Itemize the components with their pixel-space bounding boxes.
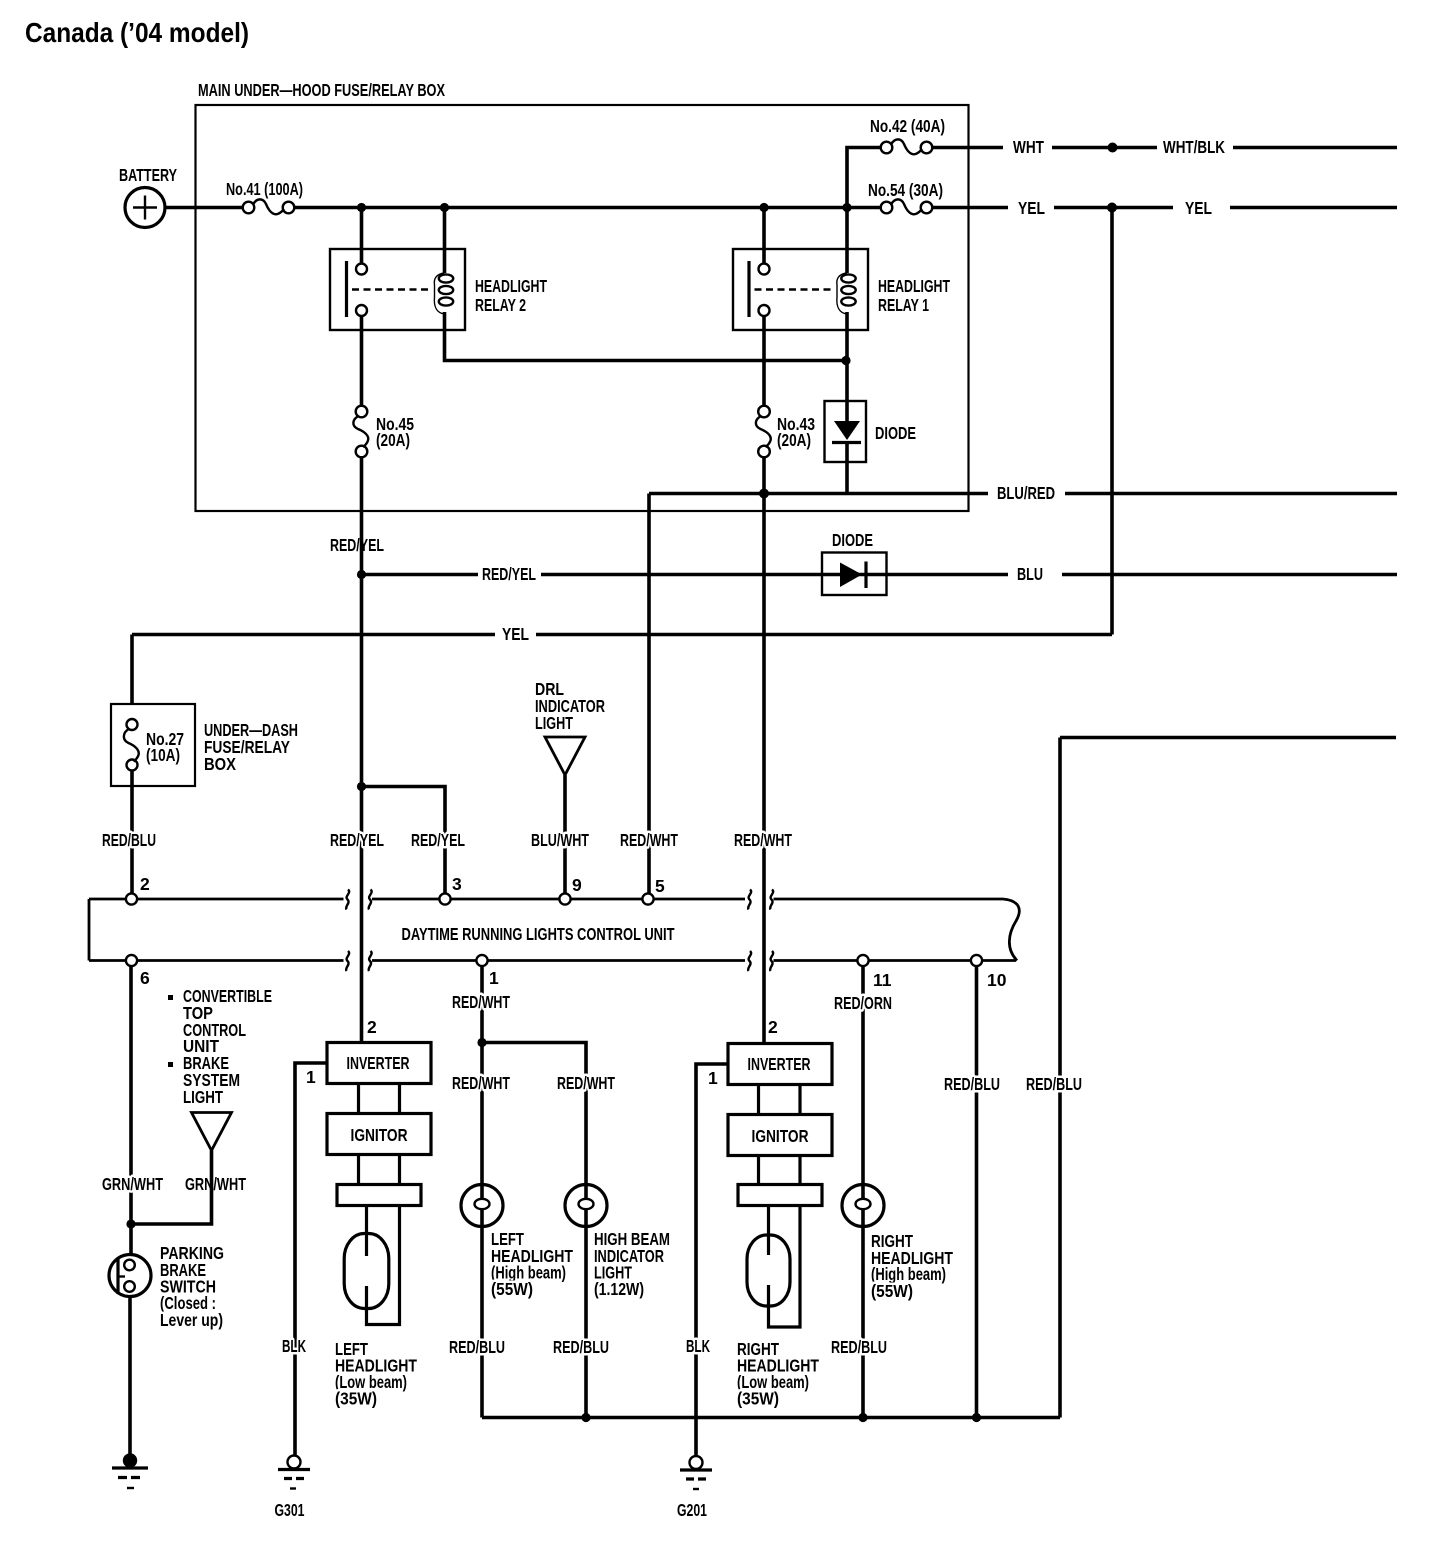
wire WHT (932, 146, 1004, 150)
junction BLU/RED node (759, 489, 769, 499)
relay K2 actuator dashed line (352, 288, 429, 290)
svg-text:1: 1 (708, 1068, 718, 1088)
svg-text:BATTERY: BATTERY (119, 165, 177, 185)
svg-text:RED/BLU: RED/BLU (553, 1337, 609, 1357)
left low beam bulb (344, 1206, 399, 1325)
left headlight high beam bulb (461, 1185, 503, 1227)
wire relay1 coil to diode D1 (845, 330, 849, 401)
wire RED/YEL pass-through (360, 456, 364, 1043)
svg-text:No.41 (100A): No.41 (100A) (226, 179, 303, 199)
svg-text:2: 2 (140, 874, 150, 894)
ignitor 2 (728, 1115, 832, 1156)
svg-text:Lever up): Lever up) (160, 1310, 223, 1330)
svg-text:RED/WHT: RED/WHT (557, 1073, 615, 1093)
junction coil bus / relay1 coil (841, 356, 850, 365)
fuse No.27 (10A) (124, 719, 139, 771)
wire YEL horizontal right part (536, 633, 1112, 637)
right headlight high beam bulb (842, 1185, 884, 1227)
wire relay2 contact feed (360, 208, 364, 265)
ground G301 (278, 1456, 310, 1489)
wire BLU/RED horizontal (649, 492, 988, 496)
svg-text:YEL: YEL (1018, 198, 1045, 218)
wire RED/BLU pin 10 to bus (975, 966, 979, 1418)
splice WHT / WHT-BLK (1108, 143, 1118, 153)
wire BLU/WHT lamp to pin 9 (563, 775, 567, 894)
relay K1 contact (749, 261, 770, 317)
svg-text:MAIN UNDER—HOOD FUSE/RELAY BOX: MAIN UNDER—HOOD FUSE/RELAY BOX (198, 80, 445, 100)
wire battery to fuse No.41 (165, 206, 244, 210)
wire YEL horizontal (132, 633, 495, 637)
parking brake switch (109, 1255, 151, 1297)
svg-text:BLU/RED: BLU/RED (997, 483, 1055, 503)
main under-hood fuse/relay box (196, 105, 969, 511)
svg-text:INVERTER: INVERTER (748, 1054, 811, 1074)
svg-text:(55W): (55W) (491, 1279, 533, 1299)
svg-text:(10A): (10A) (146, 745, 180, 765)
svg-text:RELAY 2: RELAY 2 (475, 295, 526, 315)
left headlight high beam label (491, 1229, 573, 1299)
svg-text:DIODE: DIODE (875, 423, 916, 443)
svg-text:10: 10 (987, 970, 1007, 990)
wire parking brake switch to ground (128, 1297, 132, 1455)
wire YEL to splice (1054, 206, 1173, 210)
svg-text:RED/BLU: RED/BLU (831, 1337, 887, 1357)
wire RED/BLU fuse 27 to pin 2 (130, 771, 134, 895)
wire YEL out (1230, 206, 1397, 210)
junction bus / right high beam (858, 1413, 867, 1422)
svg-text:RED/ORN: RED/ORN (834, 993, 892, 1013)
svg-text:5: 5 (655, 876, 665, 896)
DRL indicator light lamp (545, 737, 585, 775)
connector break marks (346, 890, 773, 972)
wire BLK inverter 2 pin 1 to G201 (696, 1064, 728, 1456)
svg-text:RED/BLU: RED/BLU (944, 1074, 1000, 1094)
pin 1 (476, 955, 487, 966)
left headlight low beam label (335, 1339, 417, 1409)
svg-text:3: 3 (452, 874, 462, 894)
svg-text:HEADLIGHT: HEADLIGHT (475, 276, 547, 296)
wire battery bus (294, 206, 883, 210)
svg-text:RED/YEL: RED/YEL (411, 830, 465, 850)
fuse No.54 (30A) (881, 199, 933, 214)
svg-text:(55W): (55W) (871, 1281, 913, 1301)
under-dash fuse/relay box (111, 704, 195, 786)
wires inverter 1 to ignitor 1 (359, 1084, 400, 1114)
relay K2 contact (347, 261, 368, 317)
svg-text:IGNITOR: IGNITOR (351, 1125, 408, 1145)
svg-text:9: 9 (572, 875, 582, 895)
fuse No.42 (40A) (881, 139, 933, 154)
svg-text:(35W): (35W) (335, 1389, 377, 1409)
right low beam bulb (747, 1206, 800, 1328)
svg-text:G301: G301 (275, 1500, 305, 1520)
svg-text:2: 2 (367, 1017, 377, 1037)
pin 10 (971, 955, 982, 966)
svg-text:WHT/BLK: WHT/BLK (1163, 137, 1225, 157)
junction bus / pin 10 (972, 1413, 981, 1422)
diode D1 (825, 401, 867, 462)
wire branch to high beam indicator (482, 1043, 586, 1418)
svg-text:LIGHT: LIGHT (535, 713, 573, 733)
svg-text:LIGHT: LIGHT (183, 1087, 223, 1107)
wire BLU out (1062, 573, 1397, 577)
wire relay1 contact to fuse No.43 (762, 316, 766, 407)
junction GRN/WHT (126, 1219, 135, 1228)
svg-text:6: 6 (140, 968, 150, 988)
wire relay1 contact feed (762, 208, 766, 265)
svg-text:1: 1 (489, 968, 499, 988)
junction YEL riser (1107, 203, 1117, 213)
junction RED/YEL (357, 570, 366, 579)
junction bus / relay 1 contact (759, 203, 768, 212)
fuse No.45 (20A) (353, 406, 368, 458)
right headlight high beam label (871, 1231, 953, 1301)
svg-text:RED/YEL: RED/YEL (482, 564, 536, 584)
svg-text:RED/YEL: RED/YEL (330, 830, 384, 850)
svg-text:BOX: BOX (204, 754, 236, 774)
right headlight low beam label (737, 1339, 819, 1409)
svg-text:BLK: BLK (686, 1336, 710, 1356)
wires ignitor 1 to socket (359, 1155, 400, 1185)
inverter 2 (728, 1044, 832, 1085)
brake system light lamp (192, 1113, 232, 1151)
svg-text:GRN/WHT: GRN/WHT (185, 1174, 246, 1194)
ground (parking brake switch) (112, 1453, 148, 1488)
convertible top / brake system note (168, 986, 272, 1107)
right low beam socket (738, 1185, 822, 1206)
svg-text:DIODE: DIODE (832, 530, 873, 550)
wire relay2 coil to coil bus (445, 330, 847, 361)
pin 3 (439, 893, 450, 904)
svg-text:1: 1 (306, 1067, 316, 1087)
pin 2 (126, 893, 137, 904)
high beam indicator bulb (565, 1185, 607, 1227)
svg-text:RED/WHT: RED/WHT (734, 830, 792, 850)
wire RED/YEL horizontal (362, 573, 479, 577)
ground G201 (680, 1456, 712, 1489)
svg-text:RED/BLU: RED/BLU (102, 830, 156, 850)
wire BLU/RED out (1065, 492, 1397, 496)
svg-text:WHT: WHT (1013, 137, 1044, 157)
svg-text:RED/BLU: RED/BLU (1026, 1074, 1082, 1094)
inverter 1 (327, 1043, 431, 1084)
relay K1 actuator dashed line (755, 288, 832, 290)
DAYTIME RUNNING LIGHTS CONTROL UNIT box (89, 899, 1019, 961)
ground bus wire (482, 1416, 1060, 1420)
wire WHT/BLK out (1233, 146, 1397, 150)
svg-text:YEL: YEL (502, 624, 529, 644)
wire diode D1 down (845, 462, 849, 494)
wire RED/WHT pin 5 branch (647, 494, 651, 895)
svg-text:YEL: YEL (1185, 198, 1212, 218)
fuse No.43 (20A) (756, 406, 771, 458)
svg-text:HEADLIGHT: HEADLIGHT (878, 276, 950, 296)
fuse No.41 (100A) (243, 199, 295, 214)
svg-text:2: 2 (768, 1017, 778, 1037)
junction bus / relay 2 contact (357, 203, 366, 212)
svg-text:RED/YEL: RED/YEL (330, 535, 384, 555)
relay K1 coil (837, 208, 856, 331)
wire RED/WHT fuse43 to DRL unit pass-through (762, 456, 766, 1044)
wire fuse 42 riser (847, 148, 882, 208)
high beam indicator label (594, 1229, 670, 1299)
battery (125, 188, 165, 228)
wires ignitor 2 to socket (759, 1156, 801, 1185)
pin 11 (857, 955, 868, 966)
junction bus / indicator (581, 1413, 590, 1422)
wire relay2 contact to fuse No.45 (360, 316, 364, 407)
svg-text:11: 11 (873, 970, 892, 990)
svg-text:Canada (’04 model): Canada (’04 model) (25, 17, 249, 48)
junction pin 1 branch (477, 1038, 486, 1047)
wire RED/BLU return riser (1058, 738, 1062, 1418)
pin 6 (126, 955, 137, 966)
left low beam socket (337, 1185, 421, 1206)
wire RED/BLU return top (1060, 736, 1396, 740)
svg-text:G201: G201 (677, 1500, 707, 1520)
diode D2 (822, 553, 887, 596)
wire BLK inverter 1 pin 1 to G301 (295, 1063, 327, 1456)
wire RED/WHT pin 1 to bus (480, 966, 484, 1418)
svg-text:(20A): (20A) (376, 430, 410, 450)
svg-text:RED/WHT: RED/WHT (452, 992, 510, 1012)
wire WHT to splice (1052, 146, 1157, 150)
svg-text:RED/WHT: RED/WHT (620, 830, 678, 850)
svg-text:BLK: BLK (282, 1336, 306, 1356)
svg-text:(1.12W): (1.12W) (594, 1279, 644, 1299)
wire RED/ORN pin 11 to bus (861, 966, 865, 1418)
svg-text:IGNITOR: IGNITOR (752, 1126, 809, 1146)
wire RED/YEL to diode D2 (541, 573, 1008, 577)
ignitor 1 (327, 1114, 431, 1155)
pin 5 (642, 893, 653, 904)
wire YEL drop to under-dash box (130, 635, 134, 706)
svg-text:No.42 (40A): No.42 (40A) (870, 116, 945, 136)
junction bus / fuse 42 riser (842, 203, 851, 212)
svg-text:GRN/WHT: GRN/WHT (102, 1174, 163, 1194)
relay K1 (headlight relay 1) box (733, 249, 868, 330)
wires inverter 2 to ignitor 2 (759, 1085, 801, 1115)
svg-text:BLU: BLU (1017, 564, 1043, 584)
svg-text:RED/BLU: RED/BLU (449, 1337, 505, 1357)
parking brake switch label (160, 1243, 224, 1330)
wire YEL riser down (1110, 208, 1114, 635)
junction bus / relay 2 coil (440, 203, 449, 212)
svg-text:BLU/WHT: BLU/WHT (531, 830, 589, 850)
wire GRN/WHT pin 6 to parking brake switch (129, 966, 133, 1255)
junction RED/YEL pin 3 branch (357, 782, 366, 791)
svg-text:RELAY 1: RELAY 1 (878, 295, 929, 315)
svg-text:(35W): (35W) (737, 1389, 779, 1409)
svg-text:No.54 (30A): No.54 (30A) (868, 180, 943, 200)
svg-text:INVERTER: INVERTER (347, 1053, 410, 1073)
relay K2 coil (434, 273, 453, 330)
svg-text:(20A): (20A) (777, 430, 811, 450)
wire RED/YEL pin 3 branch (362, 787, 446, 895)
pin 9 (559, 893, 570, 904)
svg-text:RED/WHT: RED/WHT (452, 1073, 510, 1093)
wire brake system light branch (131, 1151, 212, 1225)
wire relay2 coil feed (443, 208, 447, 274)
svg-text:DAYTIME RUNNING LIGHTS CONTROL: DAYTIME RUNNING LIGHTS CONTROL UNIT (402, 924, 675, 944)
wire YEL (932, 206, 1009, 210)
relay K2 (headlight relay 2) box (330, 249, 465, 330)
